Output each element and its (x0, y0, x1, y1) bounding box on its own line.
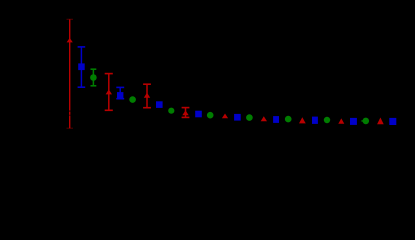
series 1 point 6 marker: red triangle (261, 116, 267, 121)
series 3 point 4 marker: green circle (207, 112, 214, 119)
series 1 point 3 error bar (red) (143, 84, 151, 108)
series 2 point 8 marker: blue square (350, 118, 357, 125)
series 2 point 2 marker: blue square (117, 92, 123, 98)
series 1 point 2 marker: red triangle (106, 89, 112, 94)
series 3 point 7 marker: green circle (324, 117, 330, 123)
series 2 point 6 marker: blue square (273, 116, 279, 123)
series 3 point 2 marker: green circle (129, 96, 136, 103)
series 1 point 9 marker: red triangle (377, 118, 384, 125)
dim gaps on tall red error bar (69, 110, 71, 112)
series 1 point 5 marker: red triangle (222, 114, 228, 119)
chart: three-series scatter plot with error bars on black background (0, 0, 415, 182)
series 3 point 1 marker: green circle (90, 74, 97, 81)
series 3 point 3 marker: green circle (168, 108, 174, 114)
series 1 point 7 marker: red triangle (299, 117, 306, 123)
series 2 point 1 marker: blue square (78, 63, 85, 70)
series 1 point 8 marker: red triangle (338, 118, 344, 123)
series 1 point 1 error bar (red, large) (67, 19, 74, 128)
series 3 point 8 marker: green circle (363, 118, 370, 125)
series 1 point 1 marker: red triangle (67, 38, 73, 43)
series 3 point 8 error bar stub (green) (361, 120, 363, 122)
series 3 point 5 marker: green circle (246, 114, 253, 121)
series 2 point 7 marker: blue square (312, 117, 318, 124)
series 2 point 2 error bar (blue) (116, 87, 124, 98)
series 1 point 2 error bar (red) (105, 74, 113, 111)
series 2 point 5 marker: blue square (234, 114, 241, 121)
series 3 point 1 error bar (green) (91, 69, 97, 86)
series 2 point 9 marker: blue square (389, 118, 396, 125)
series 2 point 1 error bar (blue) (78, 47, 86, 87)
series 3 point 6 marker: green circle (285, 116, 292, 123)
series 2 point 4 marker: blue square (195, 111, 202, 118)
series 1 point 4 error bar (red) (182, 108, 190, 118)
series 1 point 4 marker: red triangle (182, 110, 188, 115)
series 1 point 3 marker: red triangle (144, 93, 150, 98)
series 2 point 3 marker: blue square (156, 101, 163, 108)
